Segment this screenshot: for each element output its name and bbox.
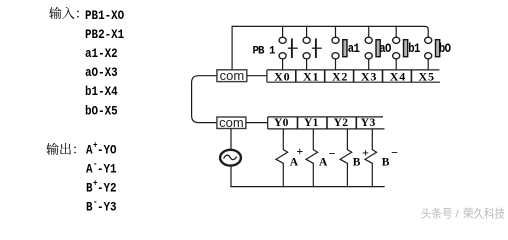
svg-text:a1: a1 bbox=[348, 41, 360, 56]
svg-text:X0: X0 bbox=[274, 69, 290, 83]
svg-text:PB1-XO: PB1-XO bbox=[85, 8, 124, 23]
svg-text:aO: aO bbox=[379, 41, 391, 56]
switch PB2 (input contact X1) bbox=[303, 26, 322, 71]
wire: output com down to AC source bbox=[230, 129, 232, 151]
svg-text:Y0: Y0 bbox=[274, 117, 289, 129]
wire: input com to X block bbox=[247, 75, 267, 77]
svg-text:aO-X3: aO-X3 bbox=[85, 65, 118, 80]
svg-text:+: + bbox=[362, 146, 369, 160]
PLC output terminal block Y0-Y3 bbox=[268, 117, 385, 129]
svg-text:Y2: Y2 bbox=[334, 117, 349, 129]
svg-text:Y3: Y3 bbox=[361, 117, 376, 129]
watermark 头条号 / 荣久科技 bbox=[422, 208, 505, 221]
PLC input terminal block X0-X5 bbox=[267, 69, 440, 83]
wire: top supply bus bbox=[232, 26, 428, 37]
svg-text:com: com bbox=[219, 115, 244, 130]
svg-text:A: A bbox=[319, 156, 328, 168]
svg-text:bO: bO bbox=[439, 41, 451, 56]
switch PB1 (input contact X0) bbox=[279, 26, 298, 71]
svg-text:A+-YO: A+-YO bbox=[86, 140, 117, 158]
svg-text:B--Y3: B--Y3 bbox=[86, 197, 117, 215]
AC supply source bbox=[220, 150, 241, 166]
svg-text:B+-Y2: B+-Y2 bbox=[86, 178, 117, 196]
switch a0 (input contact X3) bbox=[365, 26, 380, 71]
svg-text:X5: X5 bbox=[419, 69, 435, 83]
svg-text:X4: X4 bbox=[390, 69, 406, 83]
solenoid load B- on Y3 bbox=[365, 129, 377, 187]
svg-text:Y1: Y1 bbox=[304, 117, 319, 129]
label: input legend heading 输入： bbox=[49, 7, 78, 19]
svg-text:A: A bbox=[290, 156, 299, 168]
wire: common loop between input com and output com bbox=[192, 76, 217, 123]
solenoid load A- on Y1 bbox=[306, 129, 318, 187]
label: output legend heading 输出： bbox=[46, 143, 75, 155]
wire: AC source to bottom bus bbox=[230, 165, 232, 187]
output COM terminal bbox=[217, 115, 246, 130]
svg-text:B: B bbox=[382, 156, 390, 168]
svg-text:+: + bbox=[296, 144, 303, 158]
svg-text:−: − bbox=[329, 147, 336, 161]
wire: bus drop to input com bbox=[231, 26, 233, 70]
svg-text:b1-X4: b1-X4 bbox=[85, 84, 118, 99]
svg-text:b1: b1 bbox=[408, 41, 420, 56]
switch a1 (input contact X2) bbox=[332, 26, 347, 71]
svg-text:X1: X1 bbox=[303, 69, 319, 83]
svg-text:A--Y1: A--Y1 bbox=[86, 159, 117, 177]
svg-text:B: B bbox=[353, 156, 361, 168]
input mapping list PB1-X0 .. b0-X5 bbox=[85, 8, 124, 119]
svg-text:X2: X2 bbox=[332, 69, 348, 83]
svg-text:PB2-X1: PB2-X1 bbox=[85, 27, 124, 42]
output mapping list A+-Y0 .. B--Y3 bbox=[86, 140, 117, 215]
switch b1 (input contact X4) bbox=[393, 26, 408, 71]
wire: output com to Y block bbox=[246, 122, 268, 124]
svg-text:X3: X3 bbox=[361, 69, 377, 83]
svg-text:bO-X5: bO-X5 bbox=[85, 103, 118, 118]
wire: bottom return bus bbox=[230, 186, 384, 188]
svg-text:a1-X2: a1-X2 bbox=[85, 46, 118, 61]
switch b0 (input contact X5) bbox=[425, 37, 440, 70]
svg-text:com: com bbox=[220, 68, 245, 83]
svg-text:−: − bbox=[391, 145, 398, 159]
svg-text:PB 1: PB 1 bbox=[253, 45, 276, 57]
solenoid load B+ on Y2 bbox=[340, 129, 352, 187]
solenoid load A+ on Y0 bbox=[276, 129, 288, 187]
input COM terminal bbox=[217, 68, 247, 83]
